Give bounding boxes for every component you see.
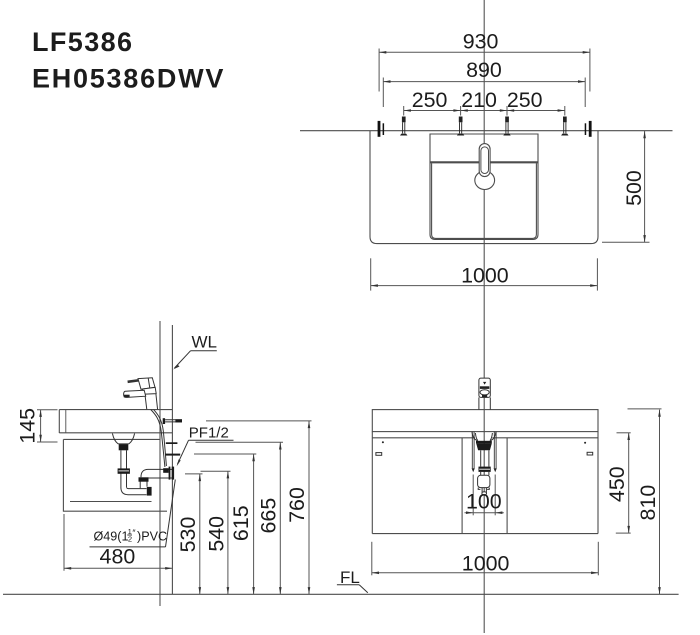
- svg-text:100: 100: [466, 490, 502, 514]
- wall tick at 665 level: [166, 442, 178, 444]
- funnel nut: [119, 444, 129, 450]
- 665 level ext: [196, 441, 284, 443]
- dimension 450: [617, 432, 631, 434]
- funnel nut: [476, 443, 492, 450]
- svg-text:Ø49(1: Ø49(1: [94, 529, 129, 543]
- dimension 1000 (plan): [370, 258, 372, 290]
- cabinet bottom (side): [63, 510, 167, 512]
- basin outer rim (plan): [430, 134, 538, 239]
- PVC label: [90, 480, 176, 547]
- cabinet right side (front): [597, 432, 599, 534]
- drain funnel: [112, 434, 134, 444]
- supply angle valve body: [163, 468, 168, 473]
- dimension 615: [253, 454, 255, 594]
- cabinet front edge (side): [62, 439, 64, 511]
- right door screw: [584, 442, 586, 444]
- cabinet bottom (front): [372, 533, 598, 535]
- dimension 250/210/250: [403, 106, 405, 116]
- 540 level ext: [201, 470, 231, 472]
- side view dimensions: [37, 410, 312, 595]
- cabinet top (side): [63, 438, 159, 440]
- faucet (side view): [124, 378, 167, 467]
- mounting bolt 4: [561, 117, 568, 136]
- dimension 530: [199, 474, 201, 594]
- faucet spout: [124, 390, 146, 397]
- tailpipe nut: [118, 468, 130, 473]
- svg-text:250: 250: [507, 88, 543, 112]
- svg-text:)PVC: )PVC: [137, 529, 167, 543]
- trap riser: [139, 482, 141, 489]
- mounting bolt 1: [400, 117, 407, 136]
- dimension 500: [602, 241, 650, 243]
- door screw dots and handles (front): [376, 441, 593, 455]
- supply hoses: [151, 410, 165, 467]
- wall anchor right thick bar: [589, 121, 592, 137]
- WL label: [173, 332, 217, 369]
- drain assembly (front view): [472, 432, 496, 495]
- svg-text:665: 665: [257, 498, 281, 534]
- left door handle: [376, 453, 382, 456]
- svg-text:LF5386: LF5386: [32, 27, 133, 57]
- dimension 760: [308, 421, 310, 594]
- dimension 480: [63, 514, 65, 571]
- svg-text:EH05386DWV: EH05386DWV: [32, 64, 225, 94]
- svg-text:540: 540: [204, 516, 228, 552]
- svg-text:FL: FL: [340, 568, 360, 587]
- right door handle: [587, 452, 593, 455]
- side center line: [159, 321, 161, 606]
- wall anchor left thin bar: [383, 123, 385, 135]
- dimension 810: [628, 408, 662, 410]
- wall fixing bolt (side, 760 level): [163, 418, 182, 424]
- middle partition right: [506, 438, 508, 534]
- trap outlet cap: [147, 487, 152, 496]
- faucet cartridge: [143, 387, 157, 394]
- center line (vertical, plan+front views): [483, 0, 485, 633]
- faucet hole inner stadium (plan): [481, 147, 489, 174]
- counter top (plan): [370, 131, 598, 244]
- svg-text:760: 760: [285, 487, 309, 523]
- floor line: [3, 593, 679, 595]
- pipe stub: [480, 472, 482, 475]
- svg-text:1000: 1000: [461, 264, 509, 288]
- counter front edge (side): [58, 410, 60, 433]
- 615 level ext: [194, 453, 256, 455]
- dimension 930: [378, 49, 380, 92]
- wall line (plan): [300, 130, 673, 132]
- tailpipe: [120, 450, 122, 488]
- wall anchor right thin bar: [585, 123, 587, 135]
- wall tick at 615 level: [165, 454, 180, 456]
- faucet hole circle (plan): [475, 171, 495, 189]
- basin fixing bolt at wall: [163, 418, 165, 424]
- funnel: [475, 433, 492, 441]
- riser nut: [139, 477, 149, 481]
- counter front inner edge line (side): [65, 410, 67, 433]
- left door screw: [382, 441, 384, 443]
- dimension 665: [279, 442, 281, 594]
- cabinet inner bottom (side): [70, 501, 152, 503]
- counter slab (front): [372, 410, 598, 432]
- basin bowl inner (plan): [432, 163, 537, 238]
- svg-text:210: 210: [461, 88, 497, 112]
- front view dimensions: [372, 409, 662, 594]
- faucet shank: [478, 397, 480, 409]
- faucet hole outer stadium (plan): [479, 144, 490, 177]
- dimension 100: [472, 475, 474, 516]
- svg-text:530: 530: [176, 517, 200, 553]
- plan dimensions: [371, 49, 650, 291]
- middle partition left: [461, 438, 463, 534]
- dimension 145: [37, 409, 58, 411]
- mounting bolts row (plan): [400, 117, 569, 136]
- wall escutcheon bars: [169, 467, 171, 480]
- trap elbow: [121, 487, 147, 494]
- svg-text:145: 145: [16, 408, 40, 444]
- svg-text:250: 250: [412, 88, 448, 112]
- svg-text:615: 615: [229, 505, 253, 541]
- aerator: [124, 395, 130, 398]
- 530 level ext: [185, 473, 203, 475]
- wall anchor left thick bar: [378, 121, 381, 137]
- trap arm to wall: [141, 469, 172, 478]
- svg-text:450: 450: [605, 466, 629, 502]
- 760 level ext: [206, 420, 312, 422]
- mounting bolt 2: [457, 117, 464, 136]
- elbow feet: [478, 488, 489, 490]
- supply pipes (front view): [472, 432, 497, 473]
- faucet lever body: [138, 378, 155, 390]
- dimension 540: [227, 471, 229, 594]
- outlet tip: [481, 488, 483, 493]
- PF1/2 label: [177, 425, 234, 467]
- counter top (side): [59, 409, 172, 411]
- svg-text:890: 890: [466, 58, 502, 82]
- basin bowl edge thick line (plan): [431, 161, 538, 163]
- svg-text:480: 480: [100, 545, 136, 569]
- faucet (front view): [479, 378, 490, 410]
- svg-text:WL: WL: [192, 332, 218, 351]
- elbow body: [478, 475, 490, 487]
- basin bottom (side): [59, 432, 172, 434]
- dimension 1000 (front): [371, 542, 373, 576]
- FL label: [337, 568, 368, 593]
- svg-text:500: 500: [622, 170, 646, 206]
- faucet lever tip: [128, 380, 141, 382]
- drain pipe: [480, 450, 482, 466]
- svg-text:930: 930: [463, 30, 499, 54]
- drain trap (side view): [112, 434, 174, 496]
- pipe nut: [479, 467, 491, 472]
- svg-text:810: 810: [636, 485, 660, 521]
- mounting bolt 3: [503, 117, 510, 136]
- wall line (side): [171, 325, 173, 594]
- faucet body: [145, 394, 157, 410]
- cabinet top rail (front): [372, 437, 475, 439]
- svg-text:1000: 1000: [462, 552, 510, 576]
- cabinet left side (front): [371, 432, 373, 534]
- svg-text:PF1/2: PF1/2: [189, 425, 229, 442]
- dimension 890: [382, 78, 384, 108]
